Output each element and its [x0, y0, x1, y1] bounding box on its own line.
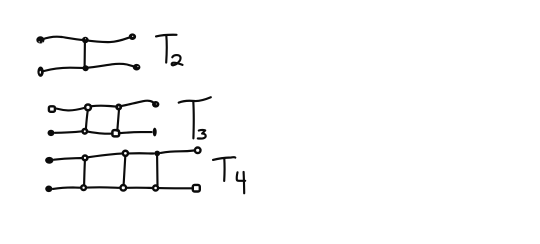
node: T3 top vertex 2 (open ring) — [85, 105, 91, 111]
node: T3 bottom vertex 2 (small ring) — [83, 129, 88, 134]
wire: graph T3 bottom edge — [55, 131, 152, 133]
node: T4 bottom-left vertex — [45, 186, 52, 193]
label T2: subscript 2 — [172, 55, 183, 65]
node: T3 top-right vertex — [152, 101, 159, 108]
node: T3 bottom-right vertex (bar blob) — [153, 128, 157, 137]
wire: graph T4 vertical rung 1 — [83, 160, 86, 185]
node: T2 top-right vertex — [129, 33, 136, 40]
wire: graph T4 bottom edge — [53, 187, 193, 189]
wire: graph T4 vertical rung 2 — [124, 156, 126, 185]
label T3: T stem — [192, 101, 195, 138]
wire: graph T3 right vertical rung — [117, 110, 119, 131]
node: T3 bottom vertex 3 (square ring) — [112, 130, 119, 136]
node: T3 top vertex 3 — [117, 105, 121, 109]
label T2: T bar — [156, 35, 177, 37]
node: T4 top vertex 2 (ring) — [83, 156, 88, 161]
wire: graph T2 top edge — [42, 37, 130, 42]
node: T3 top-left vertex (small square ring) — [49, 106, 55, 112]
node: T2 top-middle vertex — [82, 37, 89, 43]
node: T2 bottom-left vertex — [37, 67, 43, 77]
node: T4 top vertex 3 (ring) — [123, 151, 128, 156]
label T4: T stem — [223, 159, 226, 181]
wire: graph T2 middle vertical rung — [84, 42, 86, 68]
label T2: T stem — [165, 35, 168, 62]
label T3: T bar — [179, 97, 211, 102]
label T4: subscript 4 left hook — [237, 172, 245, 181]
label T4: subscript 4 vertical — [243, 172, 246, 193]
wire: graph T2 bottom edge — [44, 64, 136, 71]
node: T4 top-right vertex (donut) — [195, 148, 201, 154]
node: T4 bottom-right vertex (square donut) — [193, 185, 200, 192]
label T4: T bar — [213, 157, 235, 160]
node: T4 top vertex 4 — [154, 151, 160, 157]
wire: graph T4 top edge — [54, 151, 194, 160]
node: T2 bottom-right vertex — [133, 64, 141, 71]
node: T2 bottom-middle vertex — [83, 65, 89, 71]
node: T4 bottom vertex 4 (ring) — [153, 186, 158, 191]
node: T4 bottom vertex 2 (ring) — [81, 185, 86, 190]
wire: graph T3 top edge — [56, 101, 153, 111]
wire: graph T4 vertical rung 3 — [156, 156, 159, 185]
node: T2 top-left vertex — [36, 36, 44, 43]
node: T3 bottom-left vertex — [48, 130, 55, 136]
node: T4 bottom vertex 3 (ring) — [121, 185, 127, 191]
wire: graph T3 left vertical rung — [86, 110, 88, 129]
node: T4 top-left vertex — [45, 157, 53, 164]
label T3: subscript 3 — [198, 130, 206, 138]
